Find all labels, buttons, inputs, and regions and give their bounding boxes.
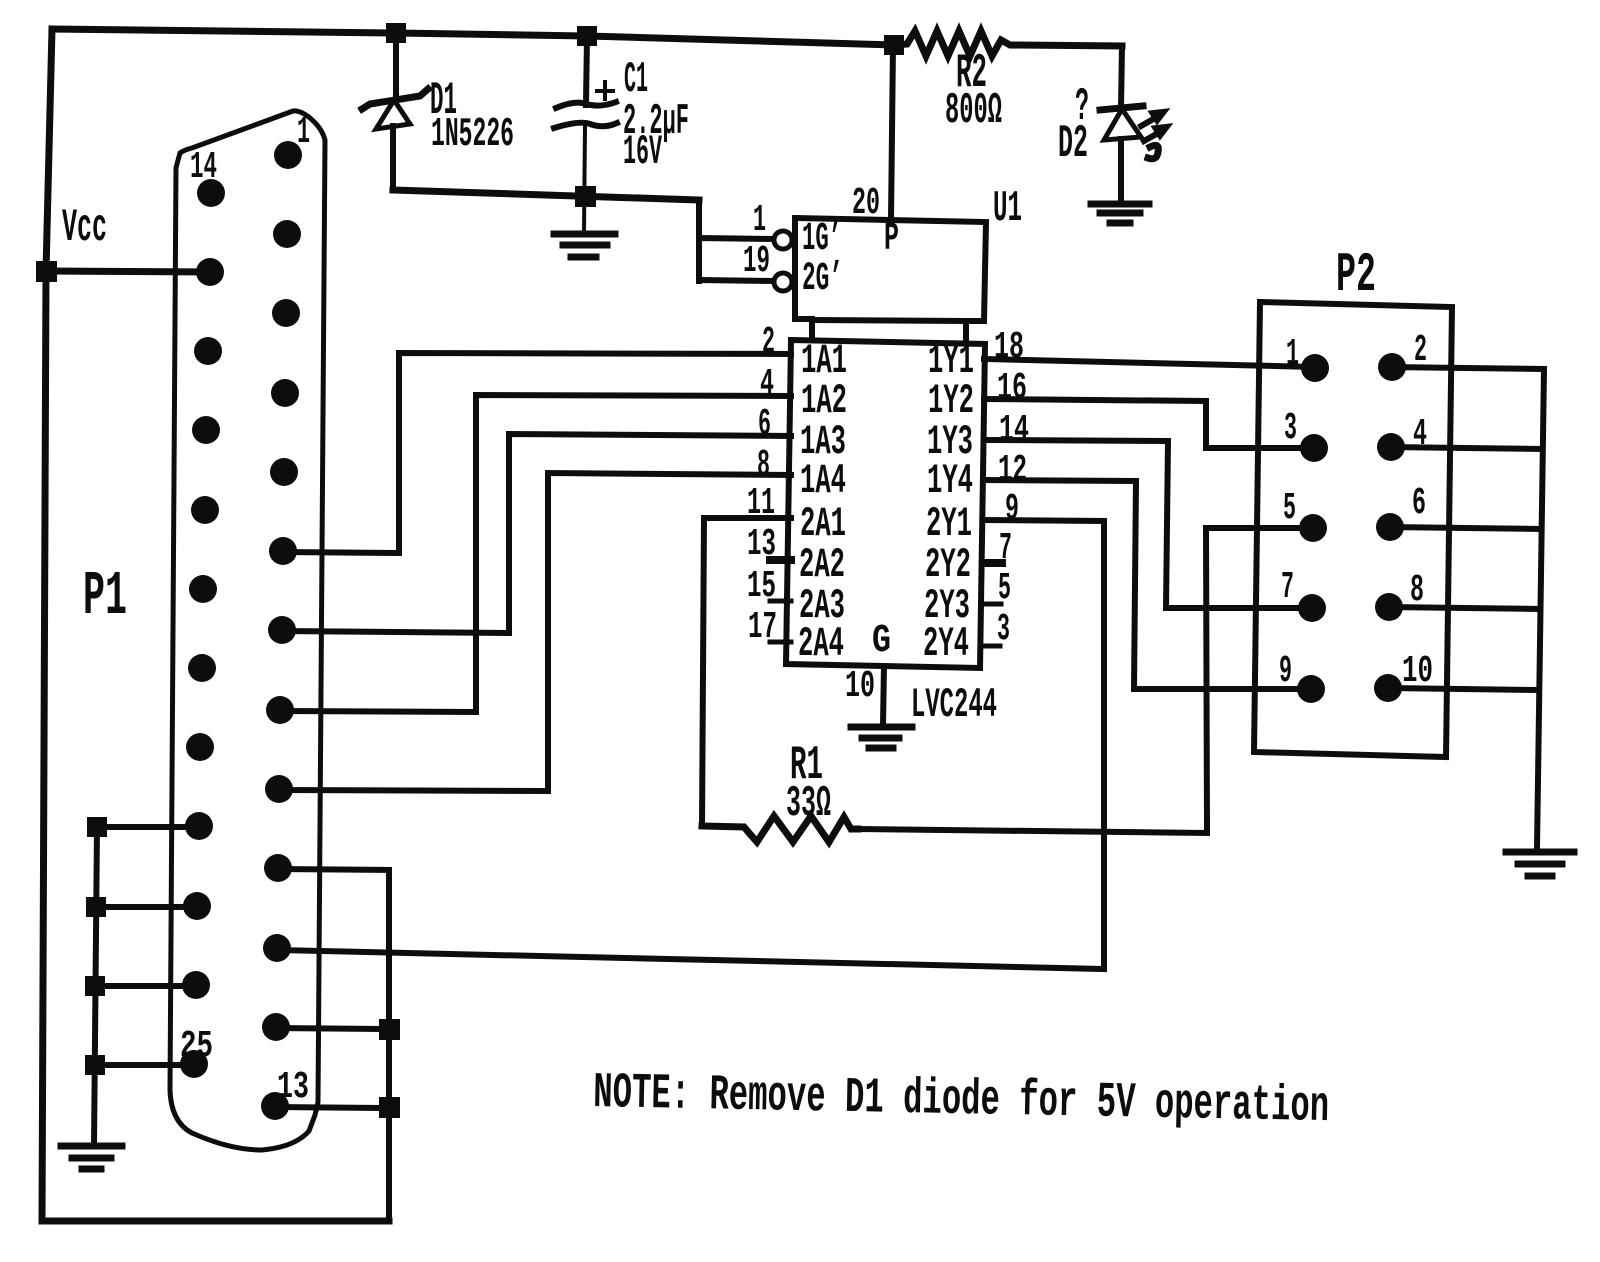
wire P1 gnd pin22 bbox=[97, 824, 199, 830]
node junction bus mid bbox=[382, 1022, 397, 1037]
pin bubble 2G bbox=[774, 273, 792, 291]
node junction gnd bus 2 bbox=[89, 900, 103, 914]
ground U1 bbox=[851, 727, 912, 748]
IC U1 control box P bbox=[795, 218, 986, 341]
wire P1 pin to right bus low bbox=[275, 1107, 389, 1108]
wire P1 pin to right bus mid bbox=[276, 1028, 389, 1029]
wire gate pins vertical bbox=[696, 200, 702, 281]
pin stub 2A4 bbox=[770, 640, 791, 645]
svg-text:8: 8 bbox=[1410, 569, 1424, 612]
wire R2 to D2 bbox=[1121, 46, 1122, 108]
svg-text:10: 10 bbox=[845, 665, 875, 708]
wire 1Y4 to P2 pin9 bbox=[984, 480, 1311, 689]
svg-text:16V: 16V bbox=[623, 128, 662, 176]
svg-text:3: 3 bbox=[997, 608, 1010, 651]
node junction C1 bottom bbox=[578, 189, 593, 204]
node junction pin20 rail bbox=[887, 38, 901, 52]
wire bottom rail bbox=[42, 1218, 389, 1225]
ground P1 bbox=[61, 1146, 122, 1169]
node junction bus low bbox=[382, 1100, 397, 1115]
svg-text:13: 13 bbox=[277, 1066, 309, 1109]
svg-text:1: 1 bbox=[1286, 333, 1299, 376]
pin stub 2Y4 bbox=[981, 644, 1000, 649]
svg-text:15: 15 bbox=[747, 565, 776, 608]
svg-text:5: 5 bbox=[1283, 487, 1296, 530]
svg-text:10: 10 bbox=[1402, 650, 1433, 693]
P2 pads left bbox=[1297, 354, 1329, 703]
wire 1Y1 to P2 pin1 bbox=[984, 359, 1315, 367]
svg-text:8: 8 bbox=[757, 444, 770, 487]
svg-text:16: 16 bbox=[997, 367, 1027, 410]
wire P2 pin8 bbox=[1389, 607, 1540, 609]
diode D1 zener 1N5226 bbox=[393, 33, 399, 98]
svg-text:11: 11 bbox=[747, 482, 775, 525]
P1 pads left column bbox=[180, 179, 225, 1078]
svg-text:6: 6 bbox=[758, 403, 771, 446]
node junction Vcc left bbox=[39, 264, 54, 279]
svg-text:17: 17 bbox=[748, 606, 777, 649]
capacitor C1 bbox=[586, 36, 587, 105]
wire P1 pin to 1A4 bbox=[279, 473, 791, 791]
wire Vcc to P1 pin14 col bbox=[46, 271, 210, 272]
svg-text:3: 3 bbox=[1284, 407, 1297, 450]
wire 2A1 to R1 bbox=[702, 518, 791, 826]
svg-text:P1: P1 bbox=[83, 561, 127, 632]
wire P1 gnd pin25 bbox=[95, 1062, 194, 1068]
svg-text:1A4: 1A4 bbox=[800, 457, 846, 505]
svg-text:1: 1 bbox=[753, 199, 766, 242]
pin stub 2A3 bbox=[770, 599, 791, 604]
ground P2 bbox=[1506, 852, 1574, 876]
svg-text:1G’: 1G’ bbox=[802, 217, 842, 262]
svg-text:2Y4: 2Y4 bbox=[923, 620, 969, 668]
svg-text:20: 20 bbox=[852, 182, 880, 225]
svg-text:14: 14 bbox=[190, 146, 217, 189]
wire 1Y3 to P2 pin7 bbox=[984, 440, 1312, 608]
wire to 1G bubble bbox=[699, 238, 773, 239]
wire P2 pin4 bbox=[1391, 447, 1542, 449]
wire P1 pin to 1A3 bbox=[282, 434, 791, 633]
svg-text:4: 4 bbox=[760, 363, 774, 406]
svg-text:6: 6 bbox=[1412, 482, 1426, 525]
svg-text:9: 9 bbox=[1005, 488, 1019, 531]
wire P1 gnd pin24 bbox=[95, 983, 196, 989]
ground D2 bbox=[1091, 204, 1149, 223]
resistor R2 bbox=[895, 31, 1122, 56]
svg-text:13: 13 bbox=[747, 523, 776, 566]
svg-text:18: 18 bbox=[994, 326, 1024, 369]
svg-text:D2: D2 bbox=[1058, 118, 1088, 170]
svg-text:LVC244: LVC244 bbox=[911, 681, 997, 729]
wire P1 gnd bus bbox=[94, 827, 97, 1146]
wire P1 pin to 2Y1 long bbox=[277, 520, 1104, 969]
svg-text:4: 4 bbox=[1413, 413, 1427, 456]
svg-text:1N5226: 1N5226 bbox=[431, 112, 514, 158]
svg-text:33Ω: 33Ω bbox=[786, 779, 831, 829]
wire R1 to P2 pin5 bbox=[858, 528, 1313, 833]
svg-text:9: 9 bbox=[1279, 650, 1292, 693]
node junction gnd bus 4 bbox=[88, 1058, 102, 1072]
svg-text:19: 19 bbox=[743, 240, 770, 283]
node junction gnd bus 1 bbox=[90, 820, 104, 834]
wire right bus of P1 bbox=[386, 870, 392, 1221]
pin bubble 1G bbox=[774, 231, 792, 249]
svg-text:P: P bbox=[884, 217, 899, 262]
wire IC pin10 ground bbox=[883, 666, 884, 725]
svg-text:Vcc: Vcc bbox=[62, 202, 107, 254]
svg-text:12: 12 bbox=[998, 449, 1027, 492]
wire pin20 bbox=[891, 45, 893, 219]
node junction gnd bus 3 bbox=[88, 979, 102, 993]
wire D1 anode rail to gate pins bbox=[393, 190, 699, 200]
svg-text:U1: U1 bbox=[993, 184, 1022, 234]
IC U1 main box bbox=[786, 340, 985, 668]
wire P2 pin2 to gnd bus bbox=[1392, 367, 1544, 848]
svg-text:1Y4: 1Y4 bbox=[927, 457, 973, 505]
C1 plus sign bbox=[603, 82, 607, 99]
node junction C1 top bbox=[580, 29, 594, 43]
wire to 2G bubble bbox=[700, 280, 773, 281]
svg-text:5: 5 bbox=[998, 567, 1011, 610]
wire left Vcc rail bbox=[42, 29, 52, 1221]
diode D2 LED bbox=[1100, 106, 1143, 110]
svg-text:25: 25 bbox=[180, 1025, 213, 1068]
wire 1Y2 to P2 pin3 bbox=[984, 399, 1314, 448]
ground C1 bbox=[554, 234, 615, 257]
P1 pads right column bbox=[261, 141, 302, 1120]
pin stub 2Y3 bbox=[982, 602, 1001, 607]
svg-text:7: 7 bbox=[999, 527, 1012, 570]
wire P1 pin to 1A2 bbox=[280, 395, 791, 712]
connector P2 box bbox=[1254, 302, 1452, 757]
svg-text:P2: P2 bbox=[1336, 243, 1376, 307]
svg-text:1: 1 bbox=[297, 111, 310, 154]
resistor R1 bbox=[702, 816, 858, 842]
svg-text:7: 7 bbox=[1281, 566, 1294, 609]
svg-text:2: 2 bbox=[1414, 329, 1427, 372]
svg-text:800Ω: 800Ω bbox=[945, 86, 1002, 136]
wire top Vcc rail bbox=[52, 29, 895, 45]
svg-text:14: 14 bbox=[999, 409, 1029, 452]
LED arrows bbox=[1141, 110, 1170, 159]
wire P1 pin to 1A1 bbox=[283, 353, 791, 553]
svg-text:G: G bbox=[872, 619, 891, 664]
pin stub 2Y2 bbox=[983, 559, 1002, 567]
wire P2 pin6 bbox=[1390, 527, 1541, 529]
wire P1 pin to right bus top bbox=[278, 869, 389, 870]
svg-text:2G’: 2G’ bbox=[802, 257, 843, 302]
wire P1 gnd pin23 bbox=[96, 904, 197, 910]
svg-text:2A4: 2A4 bbox=[798, 620, 844, 668]
svg-text:2: 2 bbox=[762, 321, 775, 364]
P2 pads right bbox=[1374, 353, 1406, 702]
pin stub 2A2 bbox=[770, 556, 791, 564]
node junction D1 top bbox=[389, 26, 403, 40]
wire P2 pin10 bbox=[1388, 688, 1538, 690]
connector P1 outline bbox=[170, 111, 325, 1150]
